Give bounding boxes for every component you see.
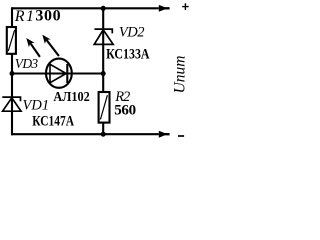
LED light arrow 2 xyxy=(42,35,59,56)
svg-text:560: 560 xyxy=(114,103,136,119)
resistor R1 xyxy=(7,27,16,54)
label + xyxy=(182,3,189,10)
label - xyxy=(178,135,184,137)
LED light arrow 1 xyxy=(26,38,40,57)
wire bottom rail xyxy=(11,133,159,135)
terminal arrow + (positive supply) xyxy=(159,5,170,12)
svg-text:КС147А: КС147А xyxy=(32,114,74,130)
resistor R2 xyxy=(99,92,110,123)
svg-text:R1: R1 xyxy=(14,8,36,25)
svg-text:300: 300 xyxy=(35,8,61,25)
svg-text:VD1: VD1 xyxy=(23,98,50,114)
svg-text:АЛ102: АЛ102 xyxy=(53,90,89,105)
node junction right xyxy=(101,71,106,76)
wire middle (LED branch) xyxy=(12,72,103,74)
wire right rail xyxy=(102,7,104,135)
svg-text:VD2: VD2 xyxy=(119,25,144,41)
svg-text:КС133А: КС133А xyxy=(106,47,150,63)
terminal arrow - (negative supply) xyxy=(159,131,170,138)
wire left rail xyxy=(11,7,13,135)
wire top rail xyxy=(12,7,159,9)
svg-text:VD3: VD3 xyxy=(15,56,39,71)
svg-text:Uпит: Uпит xyxy=(171,56,188,94)
zener diode VD2 xyxy=(94,29,113,44)
label Upit (supply voltage) xyxy=(171,56,188,94)
node junction left xyxy=(10,71,15,76)
LED VD3 (AL102) xyxy=(45,59,72,88)
node junction top xyxy=(101,6,106,11)
node junction bottom xyxy=(101,132,106,137)
zener diode VD1 xyxy=(2,97,21,111)
